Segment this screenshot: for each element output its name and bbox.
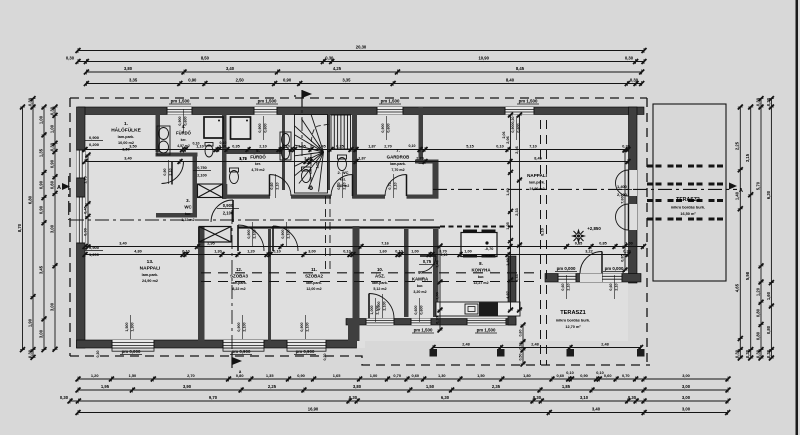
svg-text:0,60: 0,60 [557, 373, 565, 378]
svg-text:lam.park.: lam.park. [142, 273, 159, 277]
svg-text:9,70: 9,70 [209, 395, 218, 400]
svg-text:0,90: 0,90 [188, 78, 197, 83]
dim line top overall 20,30 [76, 45, 647, 53]
chain dim vertical nappali [506, 113, 513, 313]
door label halofulke [163, 160, 173, 184]
svg-text:3,00: 3,00 [682, 373, 690, 378]
svg-text:8,10: 8,10 [541, 228, 545, 235]
kitchen opening dashed overhead [440, 226, 516, 228]
svg-text:10,90: 10,90 [478, 56, 489, 61]
wall step connector [348, 319, 356, 345]
svg-text:0,60: 0,60 [609, 283, 613, 290]
svg-text:3,50: 3,50 [122, 148, 129, 152]
svg-text:2,50: 2,50 [236, 78, 245, 83]
svg-text:0,30: 0,30 [349, 395, 358, 400]
window label top3 [381, 116, 391, 140]
chain dim vertical terrace edge [518, 323, 525, 367]
level label pm top 4 [517, 99, 539, 105]
svg-text:2,95: 2,95 [207, 242, 214, 246]
room label szoba2 [305, 267, 323, 291]
wall stub furdo2 west lower [223, 184, 228, 198]
svg-text:2,36: 2,36 [515, 146, 519, 153]
chain dim line upper [83, 145, 631, 152]
svg-text:0,30: 0,30 [518, 343, 522, 350]
svg-text:2,33: 2,33 [515, 208, 519, 215]
svg-text:7,10: 7,10 [529, 145, 536, 149]
svg-text:3.: 3. [186, 198, 190, 203]
svg-text:1,60: 1,60 [766, 291, 771, 300]
toilet furdo2 left [230, 168, 239, 184]
door label asz [370, 298, 380, 322]
room label nappali right [527, 173, 547, 191]
exterior wall right [629, 107, 638, 283]
door openings right wall [629, 170, 638, 196]
svg-text:2,35: 2,35 [492, 384, 501, 389]
section line B vertical [232, 92, 330, 360]
svg-text:8.: 8. [479, 261, 483, 266]
svg-text:4,79 m2: 4,79 m2 [251, 168, 264, 172]
svg-text:pm 0,000: pm 0,000 [557, 266, 576, 271]
stair walk line dashed [311, 124, 330, 190]
svg-text:mikro bordás burk.: mikro bordás burk. [671, 206, 705, 210]
svg-text:2,06: 2,06 [502, 132, 506, 139]
section arrow A left [62, 183, 70, 190]
svg-text:4,65: 4,65 [735, 283, 740, 292]
chain dim vertical left interior [83, 153, 90, 250]
svg-text:0,10: 0,10 [282, 145, 289, 149]
dim line top third row [84, 66, 644, 74]
window kitchen 2 [467, 319, 506, 326]
window top 4 [505, 107, 534, 115]
svg-text:0,30: 0,30 [625, 56, 634, 61]
chain dim line lower [83, 250, 631, 257]
level label pm top 3 [379, 99, 401, 105]
svg-text:0,900: 0,900 [300, 322, 304, 331]
svg-text:1,05: 1,05 [316, 162, 320, 169]
svg-text:1,300: 1,300 [131, 322, 135, 331]
svg-text:24,90 m2: 24,90 m2 [529, 187, 544, 191]
svg-text:mikro bordás burk.: mikro bordás burk. [556, 319, 590, 323]
door width label kamra [419, 259, 435, 265]
dim line right first [735, 105, 743, 361]
svg-text:16,50 m²: 16,50 m² [680, 212, 696, 216]
svg-text:SZOBA3: SZOBA3 [230, 273, 248, 278]
svg-text:0,10: 0,10 [273, 250, 280, 254]
svg-text:+2,850: +2,850 [587, 226, 601, 231]
wall szoba2/asz divider [353, 226, 360, 341]
level label pm top 2 [256, 99, 278, 105]
svg-text:2,48: 2,48 [531, 343, 538, 347]
level label pm terrace 2 [603, 266, 625, 272]
exterior wall top [78, 107, 644, 115]
svg-text:2,48: 2,48 [462, 343, 469, 347]
svg-text:3,15: 3,15 [745, 153, 750, 162]
terrace 2 outline [653, 104, 726, 281]
svg-text:0,200: 0,200 [89, 142, 100, 147]
toilet wc2 [338, 155, 347, 171]
svg-text:13.: 13. [147, 259, 154, 265]
svg-text:0,30: 0,30 [623, 250, 630, 254]
svg-text:0,75: 0,75 [388, 182, 392, 189]
svg-text:1,46: 1,46 [435, 260, 439, 267]
svg-text:7,70 m2: 7,70 m2 [391, 168, 404, 172]
washbasin furdo2 double [280, 132, 291, 160]
window bottom 3 [287, 340, 326, 348]
svg-text:2,33: 2,33 [515, 274, 519, 281]
svg-text:lam.park.: lam.park. [306, 281, 322, 285]
svg-text:8,45: 8,45 [516, 66, 525, 71]
level label +2,850 with symbol [571, 226, 601, 244]
svg-text:1,85: 1,85 [562, 384, 571, 389]
svg-text:0,90: 0,90 [38, 205, 43, 214]
svg-text:5,70: 5,70 [755, 181, 760, 190]
svg-text:0,10: 0,10 [220, 141, 227, 145]
svg-text:lam.park.: lam.park. [390, 162, 406, 166]
svg-text:0,30: 0,30 [27, 349, 32, 358]
svg-text:2,10: 2,10 [567, 283, 571, 290]
svg-text:1,500: 1,500 [125, 322, 129, 331]
svg-text:6,80: 6,80 [27, 195, 32, 204]
svg-text:0,30: 0,30 [27, 97, 32, 106]
svg-text:7,60: 7,60 [620, 196, 624, 203]
room label nappali 13 [140, 259, 161, 283]
svg-text:6,30: 6,30 [441, 395, 450, 400]
svg-text:pm 1,500: pm 1,500 [258, 99, 277, 104]
svg-text:1,400: 1,400 [617, 184, 628, 189]
door label gardrob [388, 174, 398, 198]
svg-text:0,90: 0,90 [83, 228, 87, 235]
svg-text:9.: 9. [418, 270, 422, 275]
door label szoba3 [247, 222, 257, 246]
svg-text:3,00: 3,00 [38, 329, 43, 338]
svg-text:TERASZ2: TERASZ2 [676, 197, 700, 203]
dim line left third [38, 105, 46, 353]
svg-text:0,10: 0,10 [343, 250, 350, 254]
svg-text:1.: 1. [124, 121, 128, 127]
kitchen island [461, 233, 497, 257]
svg-text:GARDROB: GARDROB [387, 154, 410, 159]
wall kamra west [404, 229, 409, 317]
svg-text:2,06: 2,06 [506, 136, 510, 143]
svg-text:11.: 11. [311, 267, 317, 272]
wall wc1 east / shaft [193, 155, 198, 217]
window bottom 1 [112, 340, 154, 348]
level label pm bottom 3 [294, 349, 316, 355]
svg-text:pm 1,500: pm 1,500 [477, 328, 496, 333]
svg-text:lam.park.: lam.park. [372, 281, 388, 285]
dim line right fourth [766, 96, 774, 360]
svg-text:1,35: 1,35 [266, 373, 274, 378]
door furdo2 [270, 175, 292, 197]
svg-text:5.: 5. [256, 148, 260, 153]
right border line of sheet [796, 0, 799, 435]
svg-text:0,30: 0,30 [49, 106, 54, 115]
svg-text:1,40: 1,40 [506, 258, 510, 265]
svg-text:1,50: 1,50 [477, 373, 485, 378]
wall furdo2 north stub [222, 150, 284, 154]
bathroom squares furdo1 [204, 117, 251, 139]
door nappali right 2 [616, 204, 629, 230]
dim line left overall 8,70 [17, 105, 25, 353]
svg-text:WC: WC [184, 204, 192, 209]
svg-text:2,48: 2,48 [601, 343, 608, 347]
svg-text:3,40: 3,40 [226, 66, 235, 71]
door wc2 [331, 175, 353, 197]
svg-text:0,900: 0,900 [237, 322, 241, 331]
window top 1 [167, 107, 192, 115]
svg-text:0,90: 0,90 [38, 180, 43, 189]
svg-text:1,20: 1,20 [755, 287, 760, 296]
svg-text:0,900: 0,900 [381, 123, 385, 132]
svg-text:3,45: 3,45 [38, 265, 43, 274]
window label bottom1 [125, 315, 135, 339]
svg-text:0,80: 0,80 [755, 308, 760, 317]
wall hall north segment 1 [222, 195, 270, 199]
dim line bottom third row [60, 395, 731, 403]
window left 2 [77, 197, 86, 243]
svg-text:0,900: 0,900 [281, 229, 285, 238]
room label halofulke [111, 121, 141, 152]
level label pm top 1 [169, 99, 191, 105]
room label wc2 [337, 170, 350, 188]
level label pm bottom 2 [230, 349, 252, 355]
wall gardrob east [419, 107, 424, 164]
svg-text:12,70 m²: 12,70 m² [565, 325, 581, 329]
svg-text:2,100: 2,100 [243, 322, 247, 331]
svg-text:0,80: 0,80 [755, 331, 760, 340]
svg-text:-0,70: -0,70 [485, 247, 494, 251]
wall furdo1 east [222, 114, 227, 156]
wall gardrob stub [415, 160, 439, 164]
wall hall north segment 4 [407, 195, 439, 199]
svg-text:0,900: 0,900 [178, 116, 182, 125]
svg-text:lam.park.: lam.park. [231, 281, 247, 285]
door wc1 [211, 200, 233, 222]
svg-text:1,50: 1,50 [129, 373, 137, 378]
dim line top fourth row [84, 78, 644, 86]
svg-text:1,60: 1,60 [379, 250, 386, 254]
svg-text:1,90: 1,90 [27, 318, 32, 327]
wall szoba3/szoba2 divider [268, 229, 271, 341]
svg-text:2,100: 2,100 [197, 174, 207, 178]
svg-text:2,10: 2,10 [615, 283, 619, 290]
wall kitchen south [346, 319, 516, 326]
terrace 1 dim line [431, 343, 644, 350]
dim line bottom fourth row [76, 407, 731, 415]
svg-text:2,10: 2,10 [169, 168, 173, 175]
svg-text:pm 0,000: pm 0,000 [605, 266, 624, 271]
door label szoba2 [281, 222, 291, 246]
svg-text:20,30: 20,30 [356, 45, 367, 50]
wall stairs east [327, 114, 330, 190]
svg-text:A: A [739, 188, 743, 194]
window label bottom2 [237, 315, 247, 339]
roof edge dashed pair over terrace [541, 120, 547, 365]
window label top1 [178, 109, 188, 133]
toilet niche [205, 143, 213, 158]
svg-text:4,57 m2: 4,57 m2 [177, 144, 190, 148]
svg-text:3,50: 3,50 [129, 145, 136, 149]
door opening terrace [580, 274, 602, 283]
svg-text:1,00: 1,00 [49, 124, 54, 133]
level label pm kitchen 1 [412, 328, 434, 334]
svg-text:2,100: 2,100 [376, 305, 380, 314]
svg-text:pm 1,500: pm 1,500 [171, 99, 190, 104]
wall corridor south thin [238, 226, 440, 228]
svg-text:0,10: 0,10 [219, 145, 226, 149]
svg-text:1,00: 1,00 [411, 250, 418, 254]
svg-text:pm 1,500: pm 1,500 [381, 99, 400, 104]
svg-text:3,00: 3,00 [682, 407, 691, 412]
svg-text:3,90: 3,90 [183, 384, 192, 389]
svg-text:12,27 m2: 12,27 m2 [473, 281, 488, 285]
door label wc1 horizontal [217, 203, 239, 216]
svg-text:0,10: 0,10 [182, 250, 189, 254]
svg-text:0,30: 0,30 [628, 395, 637, 400]
window kitchen small [411, 319, 431, 326]
svg-text:4,25: 4,25 [333, 66, 342, 71]
exterior wall bottom [77, 340, 357, 348]
window left 1 [77, 150, 86, 178]
svg-text:0,10: 0,10 [409, 144, 416, 148]
svg-text:1,35: 1,35 [38, 148, 43, 157]
svg-text:0,30: 0,30 [755, 349, 760, 358]
window label top4 [511, 116, 521, 140]
svg-text:0,900: 0,900 [89, 135, 100, 140]
svg-text:5,98: 5,98 [745, 271, 750, 280]
wall szoba3 west [198, 227, 205, 341]
svg-text:3,10: 3,10 [580, 395, 589, 400]
svg-text:3,20 m2: 3,20 m2 [413, 290, 426, 294]
svg-text:0,90: 0,90 [283, 78, 292, 83]
svg-text:0,70: 0,70 [622, 373, 630, 378]
svg-text:2,10: 2,10 [394, 182, 398, 189]
svg-text:0,60: 0,60 [49, 180, 54, 189]
wall konyha east [508, 256, 516, 325]
svg-text:0,60: 0,60 [518, 330, 522, 337]
svg-text:7,16: 7,16 [381, 242, 388, 246]
door nappali right 1 [616, 170, 629, 196]
door kamra [420, 256, 436, 272]
chain dim vertical nappali 2 [515, 113, 522, 313]
shaft crossed box lower [199, 227, 231, 243]
svg-text:bur.: bur. [185, 212, 192, 216]
svg-text:0,900: 0,900 [247, 229, 251, 238]
wall furdo1 south [156, 153, 198, 157]
window terrace 2 [602, 274, 622, 283]
svg-text:0,30: 0,30 [66, 56, 75, 61]
level label pm bottom 1 [120, 349, 142, 355]
svg-text:2,10: 2,10 [276, 182, 280, 189]
door label wc2 [337, 174, 347, 198]
svg-text:0,30: 0,30 [96, 351, 100, 358]
svg-text:2,100: 2,100 [383, 301, 387, 310]
svg-text:SZOBA2: SZOBA2 [305, 273, 323, 278]
door label niche horizontal [193, 166, 211, 178]
window bottom 2 [223, 340, 264, 348]
svg-text:1,00: 1,00 [38, 115, 43, 124]
door label nappali right [612, 184, 632, 197]
svg-text:3,00: 3,00 [308, 250, 315, 254]
svg-text:0,90: 0,90 [580, 373, 588, 378]
svg-text:8,70: 8,70 [17, 223, 22, 232]
room label wc1 [181, 198, 194, 222]
svg-text:0,600: 0,600 [420, 305, 424, 314]
svg-text:0,30: 0,30 [323, 354, 327, 361]
svg-text:12,00 m2: 12,00 m2 [306, 287, 321, 291]
section flag B top [301, 90, 303, 107]
svg-text:3,00: 3,00 [682, 384, 691, 389]
svg-text:6,30: 6,30 [766, 190, 771, 199]
svg-text:1,000: 1,000 [370, 305, 374, 314]
terrace 2 decking pattern [647, 166, 726, 219]
svg-text:0,25: 0,25 [336, 145, 343, 149]
svg-text:5,12 m2: 5,12 m2 [373, 287, 386, 291]
svg-text:0,900: 0,900 [223, 203, 234, 208]
dim line right third [755, 96, 763, 360]
building floor interior [76, 107, 644, 348]
svg-text:0,30: 0,30 [735, 349, 740, 358]
dim line left fourth [49, 105, 57, 352]
svg-text:0,30: 0,30 [435, 316, 439, 323]
svg-text:0,75: 0,75 [423, 259, 432, 264]
svg-text:12.: 12. [236, 267, 242, 272]
svg-text:1,30: 1,30 [214, 250, 221, 254]
svg-text:7.: 7. [396, 148, 400, 153]
chain dim vertical kamra east [435, 244, 442, 333]
svg-text:1,87: 1,87 [368, 145, 375, 149]
room label furdo1 [176, 124, 192, 148]
chain dim line middle [83, 242, 647, 249]
svg-text:TERASZ1: TERASZ1 [560, 310, 586, 316]
svg-text:1,95: 1,95 [101, 384, 110, 389]
svg-text:0,10: 0,10 [496, 145, 503, 149]
svg-text:5,15: 5,15 [466, 145, 473, 149]
svg-text:1,20: 1,20 [91, 373, 99, 378]
dim line left second [27, 96, 35, 360]
chain dim line upper2 [83, 157, 631, 164]
kitchen counter and stove [436, 302, 520, 316]
svg-text:0,600: 0,600 [517, 123, 521, 132]
svg-text:2,25: 2,25 [735, 141, 740, 150]
svg-text:pm 1,500: pm 1,500 [519, 99, 538, 104]
svg-text:0,90: 0,90 [297, 373, 305, 378]
window label top2 [258, 116, 268, 140]
svg-text:1,200: 1,200 [89, 252, 100, 257]
svg-text:3,35: 3,35 [342, 78, 351, 83]
svg-text:4,80: 4,80 [134, 250, 141, 254]
svg-text:3,45: 3,45 [318, 145, 325, 149]
svg-text:2,10: 2,10 [343, 182, 347, 189]
section line A horizontal [69, 176, 737, 220]
door asz terrace [369, 294, 394, 319]
dim line bottom first row [76, 373, 731, 381]
room label kamra [412, 270, 429, 294]
room label konyha [471, 261, 491, 285]
wall furdo2 west [222, 150, 227, 199]
svg-text:0,45: 0,45 [83, 206, 87, 213]
dim line top second row [66, 56, 646, 64]
window label bottom3 [300, 315, 310, 339]
room label szoba3 [230, 267, 248, 291]
svg-text:1,20: 1,20 [247, 250, 254, 254]
window sill marks bottom wall [112, 348, 326, 351]
svg-text:0,60: 0,60 [412, 373, 420, 378]
svg-text:ÁSZ.: ÁSZ. [375, 273, 385, 278]
svg-text:NAPPALI: NAPPALI [140, 265, 161, 271]
door halofulke wc [162, 162, 184, 184]
stair winder flight [295, 115, 328, 194]
